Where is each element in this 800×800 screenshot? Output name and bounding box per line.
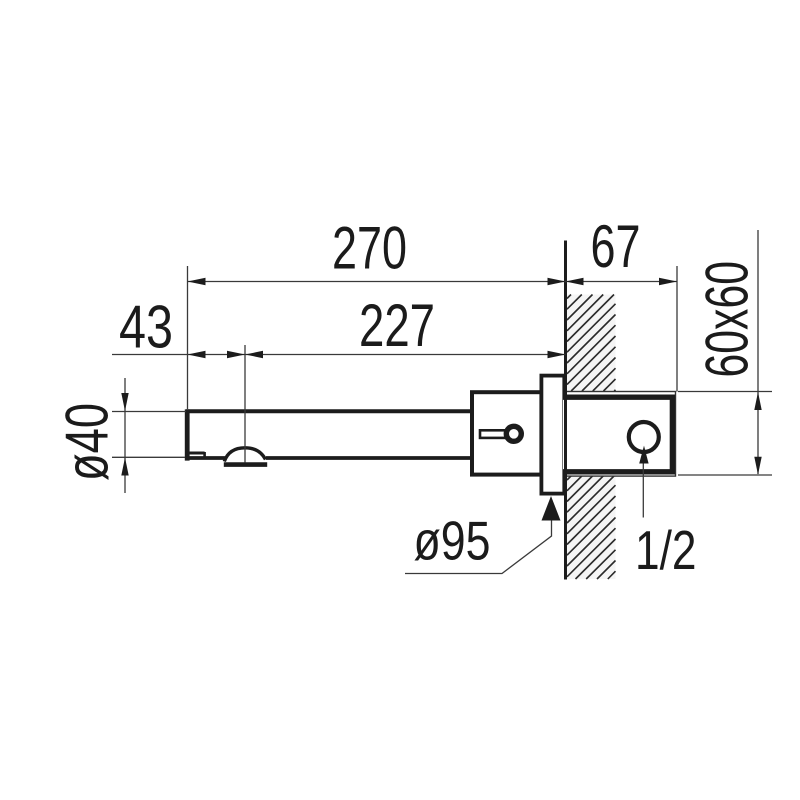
leader 1/2 arrow <box>639 446 648 464</box>
leader o95 line <box>405 515 552 574</box>
extension line right of box <box>676 266 678 392</box>
dim 43 left arrow <box>188 351 206 358</box>
dim o40 bottom arrow <box>121 458 128 476</box>
svg-text:ø40: ø40 <box>53 403 121 481</box>
dim 67 left arrow <box>566 278 584 285</box>
svg-text:1/2: 1/2 <box>635 520 697 581</box>
handle ring <box>506 426 521 441</box>
dim 60x60 bottom arrow <box>754 457 761 475</box>
spout tube bottom edge right segment <box>266 456 471 460</box>
valve body <box>472 392 541 474</box>
spout tube bottom edge left segment <box>186 456 225 460</box>
dim 270 right arrow <box>548 278 566 285</box>
dim 67 right arrow <box>659 278 677 285</box>
spout tube left end edge <box>185 409 190 460</box>
wall line <box>564 241 567 580</box>
inlet circle 1/2 <box>629 422 659 452</box>
leader 1/2 line <box>642 450 644 518</box>
extension line at spout tip <box>187 266 189 409</box>
aerator base bar <box>224 462 267 467</box>
60x60 plate thin outline <box>566 392 676 477</box>
dim 60x60 top arrow <box>754 392 761 410</box>
dim o40 line <box>124 378 126 493</box>
leader o95 arrow <box>542 496 561 521</box>
dim 43 right arrow <box>227 351 245 358</box>
dim o40 top arrow <box>121 393 128 411</box>
wall hatch upper block <box>567 295 616 392</box>
dim 60x60 extension top <box>678 391 772 393</box>
svg-text:227: 227 <box>359 291 435 359</box>
spout tip notch top <box>187 452 205 455</box>
dim 227 left arrow <box>245 351 263 358</box>
dim o40 extension bottom <box>112 456 185 458</box>
aerator dome <box>224 448 265 462</box>
spout tip notch right edge <box>203 452 206 458</box>
svg-text:60x60: 60x60 <box>693 261 761 378</box>
dim 60x60 line <box>757 230 759 474</box>
extension line at aerator <box>244 345 246 463</box>
dim 60x60 extension bottom <box>678 474 772 476</box>
wall flange <box>541 376 564 494</box>
wall hatch lower block <box>567 476 616 580</box>
dimension line 43 and 227 <box>112 354 566 356</box>
svg-text:270: 270 <box>332 214 407 282</box>
svg-text:ø95: ø95 <box>414 511 491 572</box>
dim 227 right arrow <box>548 351 566 358</box>
dim 270 left arrow <box>188 278 206 285</box>
dimension line 270 and 67 <box>188 281 678 283</box>
svg-text:67: 67 <box>591 212 641 280</box>
in-wall box body <box>563 397 672 472</box>
spout tube top edge <box>186 409 471 413</box>
handle stick <box>480 430 509 438</box>
svg-text:43: 43 <box>119 293 173 361</box>
dim o40 extension top <box>112 411 186 413</box>
